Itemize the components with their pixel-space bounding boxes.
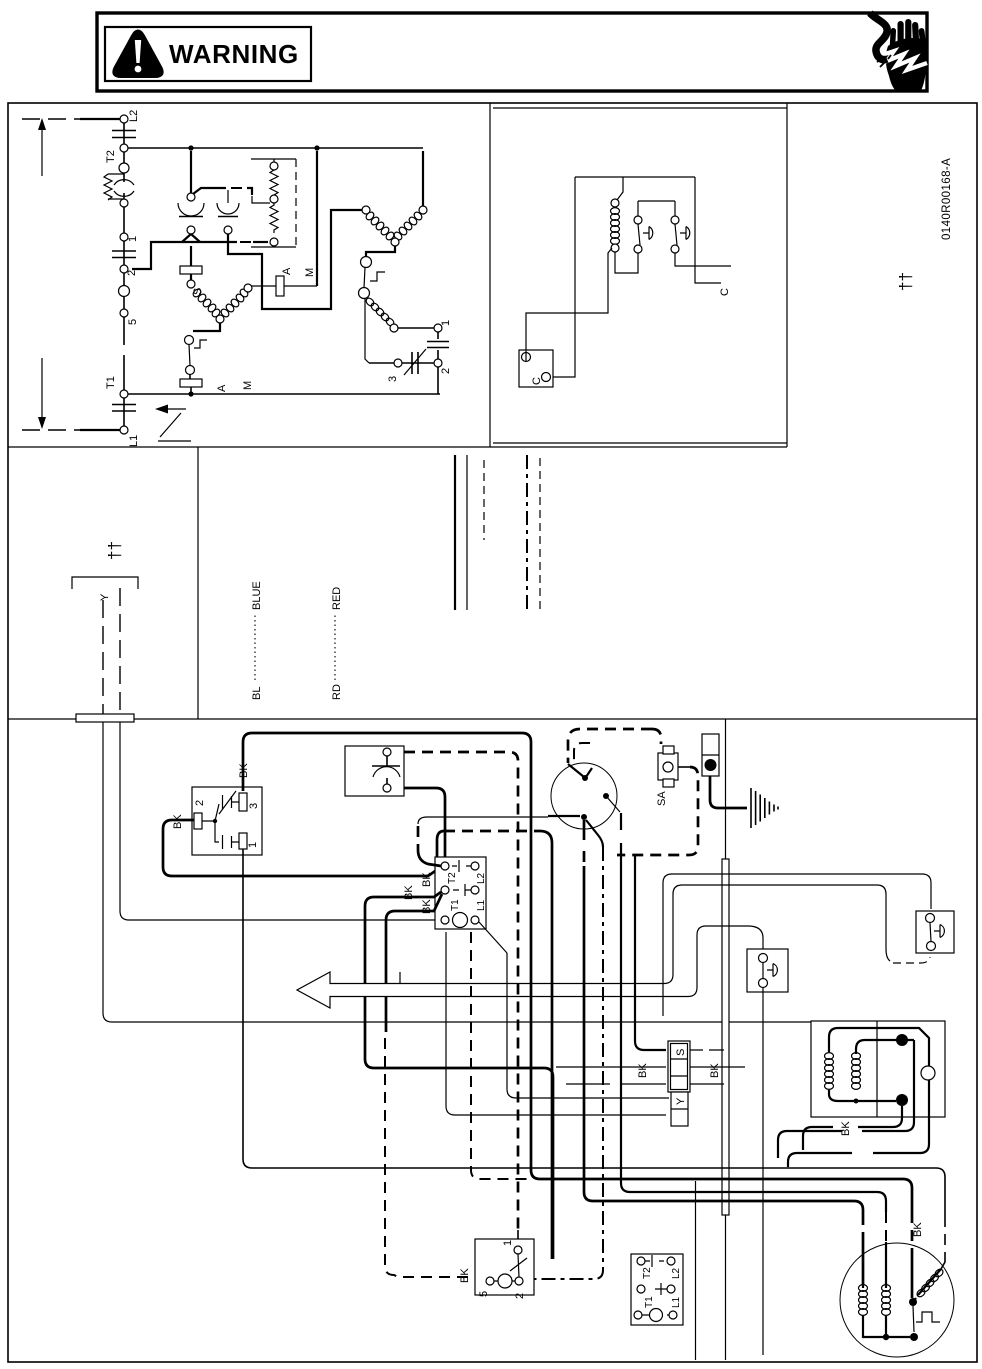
node [120,199,128,207]
svg-text:BK: BK [840,1121,852,1136]
contact node right [224,226,232,234]
node [390,324,398,332]
wire T2 down [123,152,125,164]
board internal contacts [213,819,217,823]
node 1 [120,233,128,241]
A relay coil line [251,285,317,287]
unit panel edge [725,719,727,859]
legend sample line dashed [539,458,541,610]
section divider: top band bottom [8,446,787,448]
thermostat wire Y1 [102,600,104,714]
node fan R [419,206,427,214]
tap wire [252,196,270,203]
wire contactor T1 left-down (thick) [365,892,553,1259]
contactor coil diagonal lead [479,922,507,953]
wire fuse to ground [710,776,747,808]
A coil rect [276,276,284,296]
compressor C winding [859,1285,868,1316]
C box [519,350,553,387]
warning inner box [105,27,311,81]
contactor box [435,857,486,929]
wire L2 thick lead [80,118,120,120]
legend sample line solid heavy [454,455,456,610]
high pressure switch box [916,911,954,953]
thermostat splice plug [76,714,134,722]
svg-text:SA: SA [656,791,668,806]
thin wire LP loop [427,885,877,984]
svg-text:T1: T1 [450,899,461,911]
thin wire to HP switch [663,874,931,909]
warning triangle icon [114,32,161,77]
run capacitor box [345,746,404,796]
contactor M wire down [190,151,192,193]
relay coil top node [611,199,619,207]
svg-text:††: †† [105,541,124,560]
compressor feed V [568,764,592,777]
svg-text:S: S [675,1049,687,1056]
wire Y1 lower [102,722,104,1013]
fan common branch [366,246,395,256]
svg-text:2: 2 [126,270,138,276]
svg-text:RD: RD [331,684,343,700]
defrost resistor network box [251,159,296,247]
dashed riser to low volt [471,932,528,1179]
wire defrost 3 to compressor top (thick) [243,733,912,1212]
terminal 2 [194,813,202,829]
node L2 [120,115,128,123]
contact node [187,226,195,234]
relay top bus [575,176,695,178]
terminal strip lower cells [671,1092,688,1126]
svg-text:T2: T2 [105,150,117,163]
wire LP down [762,988,764,1356]
wire down [123,273,125,286]
relay coil spring [611,208,620,245]
svg-text:L1: L1 [671,1296,682,1308]
node bottom [270,238,278,246]
relay box inner border [493,108,787,443]
node big [119,286,130,297]
contact bottom node [634,245,642,253]
svg-text:A: A [216,384,228,392]
wire defrost 1 down [243,849,945,1216]
thick bus from terminal 2 [132,242,237,269]
wye feed wires [182,234,200,242]
node fan common [391,238,399,246]
junction dot [314,145,319,150]
field arrow up [41,127,43,176]
svg-text:3: 3 [387,376,399,382]
svg-text:2: 2 [194,800,206,806]
resistor 1 [270,170,278,195]
wire defrost 2 loop [163,820,441,876]
wire contactor T1 second (thick) [386,894,442,1032]
node [119,163,129,173]
svg-text:L2: L2 [128,110,140,122]
svg-text:1: 1 [247,842,259,848]
coil arm to bus [617,177,623,200]
node T2 [120,144,128,152]
svg-text:T2: T2 [447,872,458,884]
svg-text:C: C [719,288,731,296]
wire 2 to bottom rail [437,367,439,394]
contactor terminals [441,862,449,870]
contactor legend box [631,1254,683,1325]
svg-text:L2: L2 [671,1267,682,1279]
compressor R winding diagonal [916,1268,945,1299]
node 5 [120,309,128,317]
M coil feed thick [316,151,318,286]
low pressure switch box [747,949,788,992]
field splice bars L2 [112,123,136,144]
line voltage Z arrow symbol [158,409,191,441]
svg-text:BK: BK [637,1063,649,1078]
second contact arc [217,203,239,214]
wire from right contact down to fan [228,210,362,309]
field wiring dashed lead L2 [22,118,80,120]
SA surge arrestor [658,753,678,780]
svg-text:T1: T1 [644,1296,655,1308]
compressor enclosure dashed [568,729,652,763]
fan winding right [393,211,424,242]
divider between left and middle schematic [489,103,491,447]
svg-text:A: A [281,267,293,275]
dual capacitor symbol 3 [412,352,418,374]
svg-text:5: 5 [127,319,139,325]
node 1 [434,324,442,332]
svg-text:2: 2 [514,1293,526,1299]
field arrow down [41,358,43,420]
thermostat capacitor element [123,173,125,182]
thermostat wire Y2 [119,588,121,714]
svg-text:T1: T1 [105,376,117,389]
fan winding left [365,211,396,242]
dashed continuation to defrost relay 5 [385,1038,482,1277]
wire to S terminal [635,856,666,1050]
svg-text:BK: BK [459,1268,471,1283]
node S [187,280,195,288]
chassis ground [751,788,778,828]
fan protector top node [361,257,372,268]
svg-text:5: 5 [478,1291,490,1297]
Y terminal bracket [72,577,138,589]
svg-text:Y: Y [99,593,111,601]
node M winding top [244,284,252,292]
transformer bottom bus [829,1090,896,1101]
dash-dot wire to defrost relay 2 [525,847,603,1279]
svg-text:1: 1 [127,236,139,242]
relay coil bottom node [611,244,619,252]
transformer secondary coil [852,1053,861,1090]
grommet [921,1066,935,1080]
M stationary contact arc [178,203,204,216]
svg-text:BK: BK [912,1222,924,1237]
wire dome dot left + dashed drop to T2 [418,817,548,824]
wire contact to C stub [675,253,731,266]
stationary contact D right [680,227,690,240]
svg-text:WARNING: WARNING [169,39,299,69]
compressor dome circle [551,763,617,829]
wire with break [123,317,125,390]
svg-text:BL: BL [251,687,263,700]
svg-text:††: †† [896,272,915,291]
start overload rect S [180,266,202,274]
fuse link box [702,734,719,776]
svg-text:BK: BK [421,872,433,887]
svg-text:0140R00168-A: 0140R00168-A [941,158,953,240]
legend sample line dash-dot [526,455,528,610]
transformer top loop wire [829,1028,929,1066]
svg-text:L2: L2 [476,872,487,884]
splice dot secondary [896,1094,908,1106]
contact arms [638,224,677,245]
thin branch down [695,1181,697,1360]
svg-text:1: 1 [502,1240,514,1246]
crankcase heater resistor [104,174,124,200]
node [270,162,278,170]
splice dot primary [896,1034,908,1046]
wire contact to coil [615,252,638,273]
svg-text:L1: L1 [476,899,487,911]
bottom section top border [8,718,977,720]
SA wire into enclosure [678,766,690,768]
secondary exit wire [858,1106,902,1127]
node T1 [120,390,128,398]
fan protector lead down [365,299,369,364]
wire C box to bus [550,177,575,377]
divider right of middle box [786,103,788,447]
terminal 1 [239,833,247,849]
wire dome dot down (thick) [583,820,586,840]
node fan left [362,206,370,214]
start winding coil [192,288,222,319]
wire contactor top dashed loop to compressor C [437,831,444,857]
wye center branch down [193,323,220,331]
fan capacitor [427,332,449,359]
node 2 [120,265,128,273]
splice bars [112,241,136,265]
wire down [123,207,125,233]
flow arrow symbol [297,972,427,1008]
resistor 2 [270,203,278,233]
splice bars L1 [112,398,136,426]
fan start winding [365,297,396,328]
strip stubs left [556,1067,666,1084]
terminal strip outer [668,1041,690,1092]
legend sample line solid [466,455,468,610]
overload rect [180,379,202,387]
wire node3 row [369,362,394,364]
node wye center [216,315,224,323]
legend sample line dashed short [483,460,485,540]
svg-text:RED: RED [331,587,343,610]
wire to terminal 1 [398,327,434,329]
junction dot [188,145,193,150]
svg-text:BLUE: BLUE [251,581,263,610]
node 2 [434,359,442,367]
compressor junction dots [909,1298,917,1306]
svg-text:3: 3 [248,803,260,809]
compressor circle [840,1243,954,1357]
junction dot [188,391,193,396]
transformer box [811,1021,945,1117]
wire Y2 lower to contactor coil [120,722,440,920]
transformer primary coil [825,1053,834,1090]
svg-text:Y: Y [675,1097,687,1105]
fan feed from top rail [422,151,424,206]
dashed lead L1 [22,429,80,431]
wire right bus down to C [695,177,721,283]
M moving contact node [187,193,195,201]
capacitor top dashed wire [404,752,518,1230]
svg-text:BK: BK [709,1063,721,1078]
divider left small box [197,447,199,719]
M contact arm [193,188,226,194]
svg-text:L1: L1 [128,435,140,447]
node mid [270,195,278,203]
internal protector [913,1306,914,1332]
svg-text:M: M [242,381,254,390]
compressor S winding [882,1285,891,1316]
contactor cap marks [452,860,471,896]
panel splice strip [722,859,729,1215]
contact bridge [638,201,675,216]
thick lead L1 [80,429,120,431]
terminal 3 [239,793,247,811]
capacitor bottom wire to contactor T2 [404,788,445,861]
svg-text:C: C [531,377,543,385]
wire diag to bundle (medium) [621,813,886,1212]
bottom rail from T1 [128,393,440,395]
compressor common bus [863,1316,910,1337]
node L1 [120,426,128,434]
stationary contact D left [643,227,653,240]
C box wire to coil [526,248,612,362]
internal protector contact [185,336,194,345]
defrost board box [192,787,262,855]
strip stubs right [690,1050,745,1084]
hand-shock icon [870,13,927,93]
top rail from T2 [128,147,423,149]
svg-text:1: 1 [440,320,452,326]
main winding coil [220,288,250,319]
dome dot diagonal to dashdot [586,820,603,847]
contact node [634,216,642,224]
svg-text:T2: T2 [642,1267,653,1279]
defrost relay box [475,1239,534,1295]
warning banner outer box [97,13,927,91]
svg-text:2: 2 [440,368,452,374]
svg-text:M: M [304,268,316,277]
